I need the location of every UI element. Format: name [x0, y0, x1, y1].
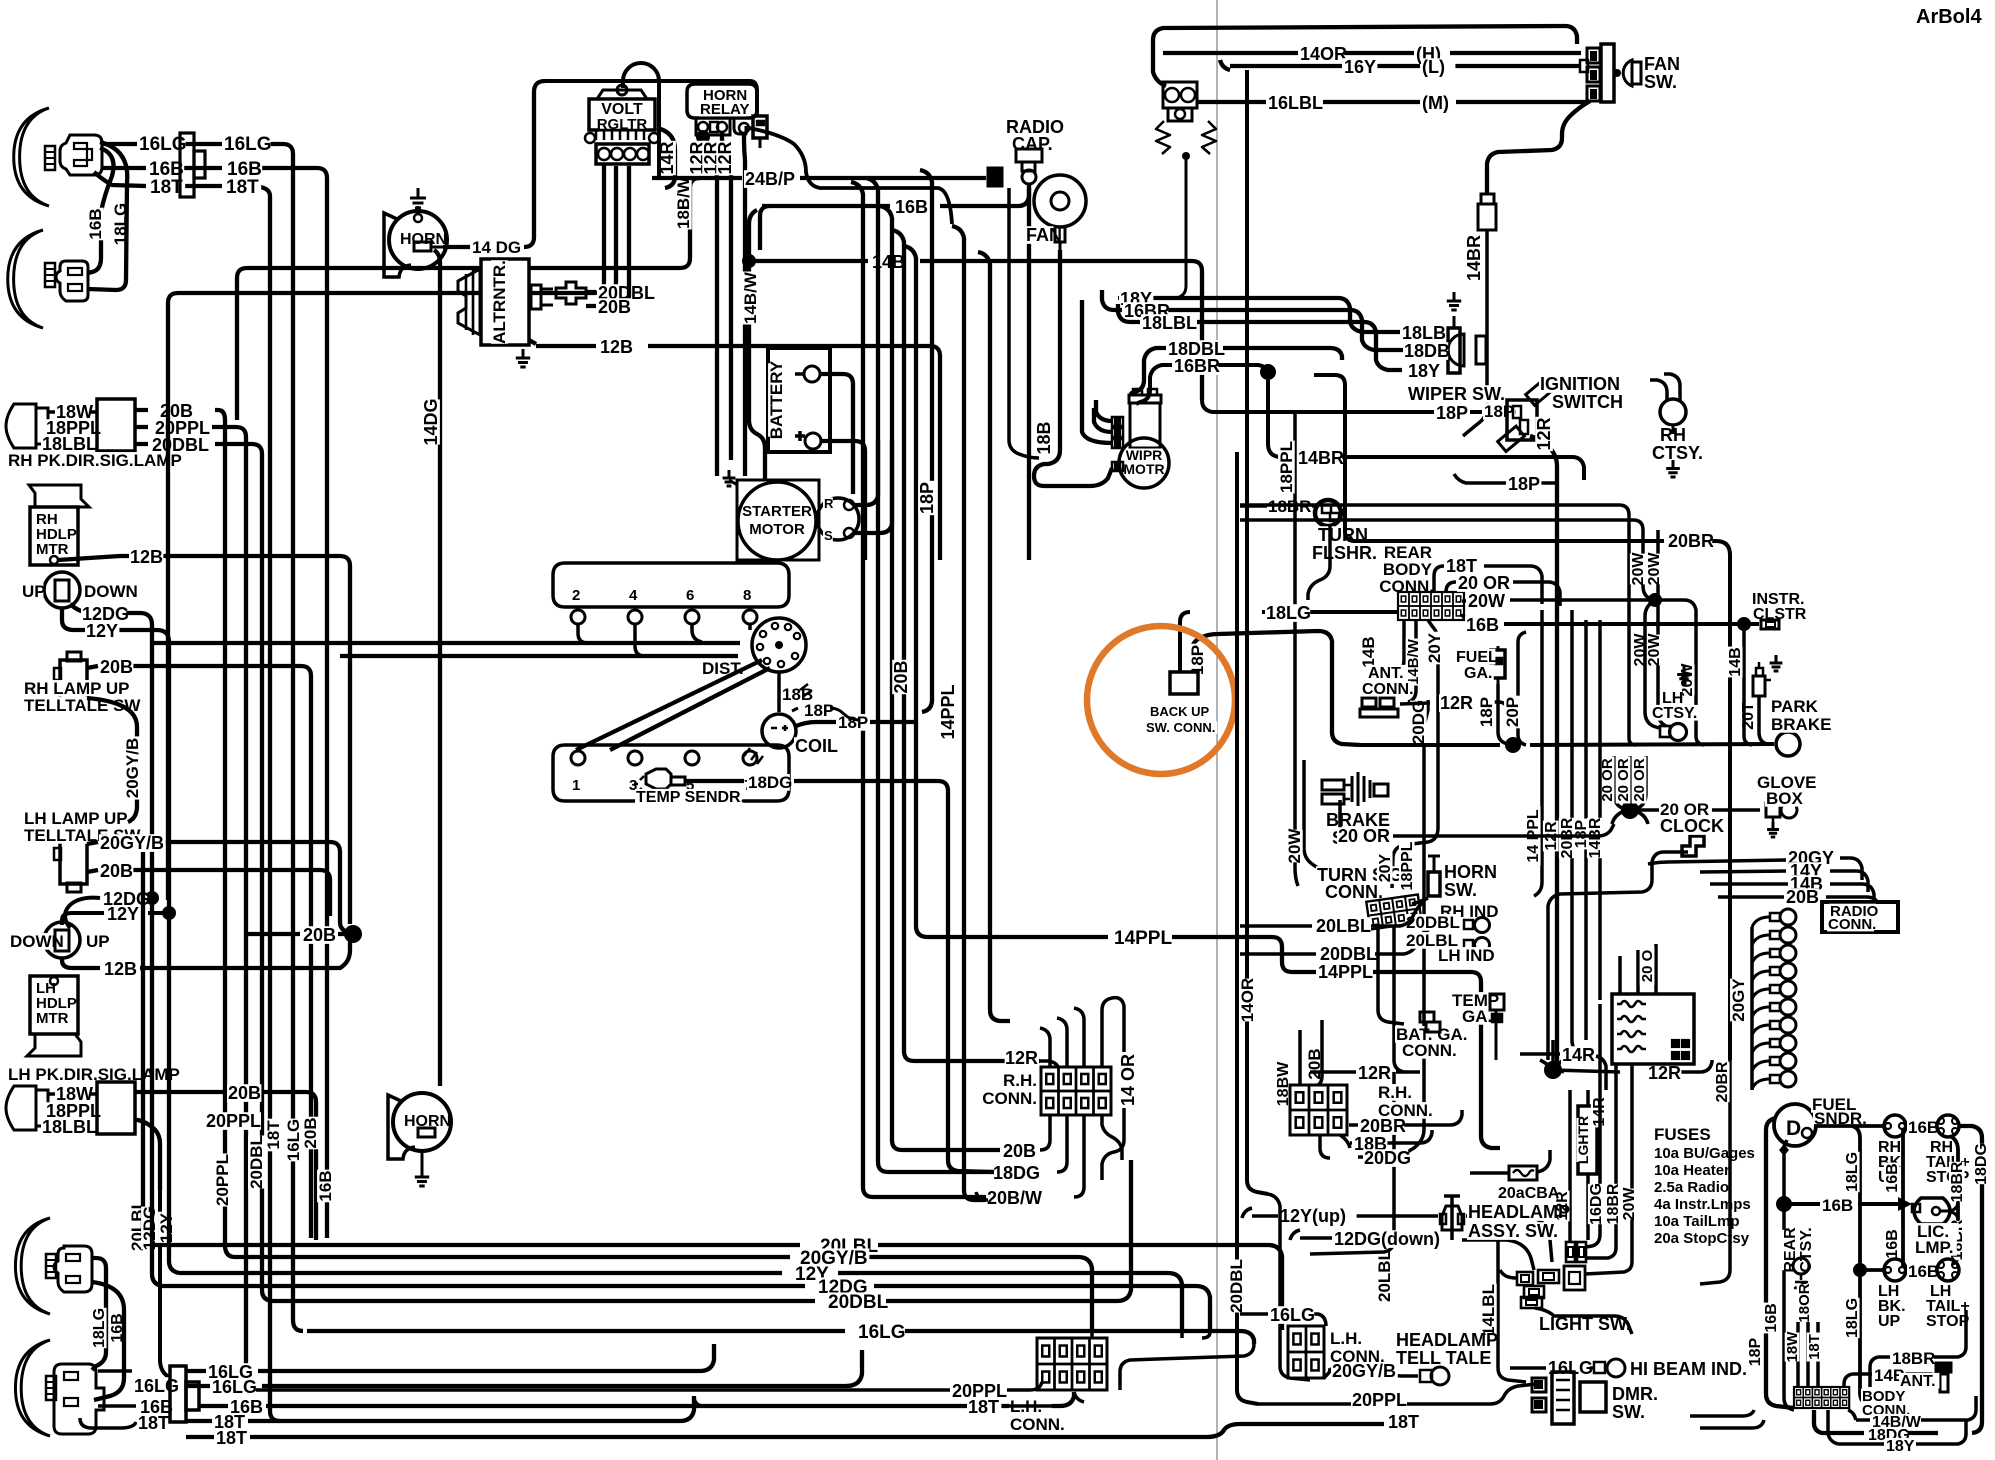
wire 18T lh	[694, 1392, 1084, 1406]
svg-text:20BR: 20BR	[1360, 1116, 1406, 1136]
wire 20B altrntr	[586, 166, 629, 306]
svg-text:18P: 18P	[1477, 697, 1496, 727]
vertical 18BR low	[1585, 1064, 1616, 1258]
svg-text:LMP.: LMP.	[1915, 1238, 1953, 1257]
label 20W v1	[1630, 552, 1647, 586]
label LH TAIL STOP	[1925, 1283, 1975, 1330]
label 14B v	[1727, 647, 1744, 678]
park brake connector	[1753, 655, 1782, 696]
label 18Y w	[1119, 289, 1153, 309]
label 16LG right	[223, 134, 272, 155]
wire relay to fan area	[749, 128, 952, 224]
svg-text:16B: 16B	[895, 197, 928, 217]
label 18P coil1	[803, 701, 836, 720]
label 18DBL w	[1167, 339, 1225, 359]
svg-text:24B/P: 24B/P	[745, 169, 795, 189]
vertical 12DG lower	[152, 898, 162, 1286]
label 20DBL big vert	[1227, 1259, 1246, 1313]
svg-text:20W: 20W	[1285, 828, 1304, 864]
wire 14B v	[1744, 628, 1752, 745]
wire 16B mid vert	[1901, 1128, 1905, 1268]
label TELLTALE SW 2	[23, 826, 141, 845]
label 18P tail	[1747, 1337, 1764, 1368]
horn relay side connector	[753, 116, 767, 148]
svg-text:20LBL: 20LBL	[1375, 1250, 1394, 1302]
label 12R rhc	[1357, 1063, 1391, 1083]
fuse panel squares	[1672, 1040, 1689, 1059]
label 18T body	[1806, 1333, 1823, 1362]
label 12Y top	[85, 621, 119, 641]
wire 20W line	[0, 0, 1, 1]
connector 14BR inline	[1478, 194, 1496, 230]
wire 18BR tail vert	[1950, 1136, 1958, 1264]
label 16LG bus	[857, 1322, 906, 1343]
svg-text:S: S	[824, 528, 833, 543]
label LH IND	[1437, 946, 1500, 965]
wire 16LG lhr	[1240, 1314, 1326, 1326]
wire 14R lbl	[1520, 1054, 1606, 1090]
wire 20DBL sig	[135, 444, 272, 1301]
svg-text:16Y: 16Y	[1344, 57, 1376, 77]
RH CTSY lamp	[1650, 374, 1686, 425]
vertical 20BR low	[1700, 1060, 1730, 1284]
label SWITCH	[1551, 392, 1623, 412]
wire lghtr	[1586, 1090, 1590, 1240]
instr clstr box	[1761, 620, 1779, 629]
wire 16LG b2	[186, 1350, 862, 1386]
vertical 20W low	[1585, 1064, 1632, 1274]
svg-text:10a TailLmp: 10a TailLmp	[1654, 1213, 1740, 1230]
wire 20PPL lh	[256, 1382, 1042, 1390]
label 16B tail mid	[1821, 1196, 1854, 1215]
LH TAIL STOP lamp	[1937, 1259, 1959, 1281]
svg-text:20B: 20B	[100, 861, 133, 881]
label 12B altrntr2	[599, 337, 633, 357]
svg-text:2: 2	[572, 587, 580, 604]
ant symbol	[1932, 1363, 1951, 1392]
bus wire 16LG	[307, 1331, 1254, 1344]
label 18W 2	[55, 1084, 93, 1104]
svg-text:ANT.: ANT.	[1368, 665, 1404, 682]
label 16LBL	[1267, 93, 1323, 113]
ind RH	[1464, 918, 1490, 933]
wire 18BR lower	[1870, 1310, 1966, 1387]
label 18T rbc	[1445, 556, 1479, 576]
svg-text:14R: 14R	[1562, 1045, 1595, 1065]
label 18B vert	[1034, 421, 1054, 455]
svg-text:20BR: 20BR	[1714, 1061, 1731, 1102]
svg-text:14BR: 14BR	[1587, 817, 1604, 858]
label RADIO CAP	[1005, 117, 1064, 154]
label WIPER SW.	[1407, 384, 1506, 404]
svg-text:16LG: 16LG	[224, 134, 272, 155]
LH BK UP lamp	[1853, 1259, 1906, 1281]
svg-text:SW.: SW.	[1444, 880, 1477, 900]
label DOWN	[83, 582, 138, 601]
RH HDLP MTR flag	[29, 485, 89, 507]
label 14BR r	[1587, 817, 1604, 858]
wire 12R rhconn	[1040, 1061, 1058, 1067]
wire lhconn loops	[1092, 1332, 1254, 1390]
wire 16LG from connector	[172, 144, 303, 1331]
wire 20T	[1759, 696, 1767, 744]
svg-text:16B: 16B	[1908, 1118, 1939, 1137]
svg-text:FUSES: FUSES	[1654, 1125, 1711, 1144]
label 18Y w2	[1407, 361, 1441, 381]
label 20W mid1	[1632, 633, 1649, 667]
svg-text:ALTRNTR.: ALTRNTR.	[490, 260, 509, 344]
label 16B lower vert	[109, 1313, 126, 1344]
backup switch connector	[1170, 672, 1198, 694]
wire 12R c	[744, 133, 745, 476]
wire 20W v2	[1240, 520, 1666, 726]
wire vreg knob hop	[623, 63, 659, 178]
wire 20DG vert	[1404, 700, 1428, 1154]
wire 12R rhc	[1310, 1070, 1404, 1074]
wire 20BR rhc	[1349, 1110, 1462, 1125]
label HEADLAMP ASSY SW	[1467, 1202, 1570, 1241]
wire vreg pin4 14R	[657, 128, 675, 188]
wire trunk v1	[851, 182, 986, 1197]
wire 20 OR brake	[1340, 800, 1614, 836]
svg-text:FLSHR.: FLSHR.	[1312, 543, 1377, 563]
svg-text:ArBol4: ArBol4	[1916, 6, 1982, 28]
fan switch connectors	[1580, 48, 1600, 101]
label LH LAMP UP	[23, 809, 128, 828]
wiper motor circle	[1119, 438, 1169, 488]
label 18LG rbc	[1265, 603, 1311, 623]
label 14B tail	[1873, 1366, 1906, 1385]
wire 18LBL wiper	[1118, 304, 1402, 370]
label GLOVE BOX	[1756, 773, 1817, 808]
svg-text:R.H.: R.H.	[1003, 1071, 1037, 1090]
label 18T r	[1387, 1412, 1421, 1432]
label 12DG vert	[140, 1206, 159, 1250]
fuse 20aCBA	[1470, 1150, 1550, 1180]
label REAR BODY CONN	[1379, 543, 1435, 596]
label 20B vert	[301, 1117, 320, 1150]
LH HDLP MTR box	[30, 976, 78, 1034]
svg-text:UP: UP	[1878, 1313, 1901, 1330]
svg-text:CONN.: CONN.	[1325, 882, 1383, 902]
distributor lower box	[553, 745, 789, 801]
wire 14DG vertical	[434, 250, 440, 1086]
label 18BR h	[1891, 1349, 1935, 1368]
wire battery pos	[821, 441, 865, 560]
label 16B rbc	[1465, 615, 1499, 635]
wire trunk v5	[904, 246, 1108, 937]
wire 18T from connector	[172, 186, 280, 1421]
wire lamp link 16B	[92, 1282, 124, 1400]
svg-text:18LBL: 18LBL	[42, 1117, 97, 1137]
label 20P fg	[1503, 696, 1522, 729]
label 18P fg	[1477, 696, 1496, 729]
label REAR CTSY	[1782, 1225, 1815, 1275]
label 18LB	[1401, 323, 1446, 343]
svg-text:20aCBA: 20aCBA	[1498, 1185, 1560, 1202]
label LH CONN center	[1009, 1397, 1065, 1434]
svg-text:DOWN: DOWN	[10, 932, 64, 951]
wire 18LG into rbc	[1180, 612, 1398, 672]
svg-text:20W: 20W	[1621, 1187, 1638, 1221]
svg-text:12R: 12R	[1648, 1063, 1681, 1083]
wire 20LBL vert	[1310, 1072, 1394, 1254]
svg-text:HEADLAMP: HEADLAMP	[1468, 1202, 1570, 1222]
label 16B vert	[86, 208, 105, 241]
svg-text:18B/W: 18B/W	[674, 176, 693, 229]
fan switch knob	[1613, 60, 1641, 86]
wire lamp link 18LG	[92, 1258, 106, 1370]
wire dist drop	[777, 672, 781, 712]
wire radio cap down	[1027, 184, 1031, 560]
wire rbc below 20Y	[1392, 620, 1438, 888]
svg-text:12B: 12B	[600, 337, 633, 357]
wire hl assy 12Y	[1242, 1208, 1552, 1262]
wire 16BR2 wiper	[1136, 364, 1276, 404]
svg-text:16LBL: 16LBL	[1268, 93, 1323, 113]
wire 12R b	[722, 133, 731, 460]
svg-text:BATTERY: BATTERY	[767, 360, 786, 439]
svg-text:18P: 18P	[917, 482, 937, 514]
svg-text:18B: 18B	[1034, 421, 1054, 454]
label TURN FLSHR	[1311, 525, 1378, 563]
svg-text:R.H.: R.H.	[1378, 1083, 1412, 1102]
label 20 OR brake	[1337, 826, 1393, 846]
label 18B/W vert	[674, 176, 693, 229]
wire 16Y L	[1220, 60, 1581, 70]
dist terminal 8	[742, 587, 757, 630]
spark marks coil	[744, 684, 812, 764]
label 14B rbc	[1359, 636, 1378, 669]
svg-text:20PPL: 20PPL	[213, 1154, 232, 1206]
turn flasher	[1315, 500, 1341, 526]
wire 20B sig	[135, 410, 235, 1257]
wire top feed horizontal	[545, 81, 757, 116]
svg-text:14PPL: 14PPL	[1318, 962, 1373, 982]
connector bar B	[194, 151, 205, 178]
wire 18OR vert	[1805, 1290, 1808, 1387]
vertical 18P r	[1584, 620, 1588, 1040]
svg-text:12R: 12R	[1440, 693, 1473, 713]
label 20BR r	[1559, 817, 1576, 858]
label 18PPL tsc	[1399, 841, 1416, 891]
connector RH sig lamp	[97, 399, 135, 451]
label 16LG br1	[207, 1362, 253, 1382]
label BODY CONN	[1861, 1388, 1910, 1419]
svg-text:18P: 18P	[804, 701, 834, 720]
label HI BEAM IND	[1629, 1359, 1761, 1379]
wire solenoid R	[853, 440, 878, 505]
label 14 PPL r	[1525, 806, 1542, 866]
svg-text:BOX: BOX	[1766, 789, 1804, 808]
label HORN bottom	[403, 1113, 451, 1130]
headlamp LH inner	[15, 1340, 56, 1436]
svg-text:20W: 20W	[1646, 552, 1663, 586]
wire 20PPL link2	[160, 1190, 170, 1378]
bat ga symbol	[1420, 1012, 1440, 1032]
temp sender symbol	[634, 769, 685, 792]
svg-text:HI BEAM IND.: HI BEAM IND.	[1630, 1359, 1747, 1379]
svg-text:20B: 20B	[598, 297, 631, 317]
svg-text:18LG: 18LG	[1844, 1298, 1861, 1338]
lamp column	[1752, 909, 1796, 1089]
sheet label ArBol4	[1915, 6, 1989, 28]
label 20B radio	[1785, 887, 1819, 907]
wire trunk v6 18P	[920, 170, 932, 712]
svg-text:18LG: 18LG	[1266, 603, 1311, 623]
label 18PPL 2	[45, 1101, 101, 1121]
label 18W	[55, 402, 93, 422]
label 14Y radio	[1789, 861, 1823, 881]
svg-text:18Y: 18Y	[1886, 1438, 1915, 1455]
svg-text:18P: 18P	[1436, 403, 1468, 423]
svg-text:18T: 18T	[216, 1428, 247, 1448]
wire 14B/W bottom	[1848, 1396, 1976, 1420]
label 14 DG	[471, 238, 524, 257]
label 16DG	[1588, 1183, 1605, 1225]
wire hl assy 12DG	[1290, 1230, 1534, 1270]
svg-text:16LG: 16LG	[212, 1377, 257, 1397]
wire 12R small	[1400, 702, 1508, 718]
label RH IND	[1439, 902, 1502, 921]
label 20PPL vert	[213, 1154, 232, 1207]
ground starter	[723, 470, 739, 486]
dist terminal 6	[685, 587, 702, 642]
wire 20B/W tail	[976, 1192, 988, 1200]
LH lamp-up telltale switch	[54, 832, 87, 892]
wire wiper pins in	[1082, 300, 1112, 443]
wire lsw feeds	[1237, 452, 1258, 1404]
label 12B bottom	[103, 959, 137, 979]
junction horn relay	[696, 130, 710, 144]
label 16B vert2	[316, 1170, 335, 1203]
label 20DG vert	[1409, 700, 1428, 744]
label FAN	[1025, 225, 1062, 245]
label FUEL SNDR	[1811, 1095, 1867, 1128]
wire 12DG top motor	[70, 604, 152, 898]
wire 20B junction line	[246, 925, 362, 943]
svg-text:20W: 20W	[1468, 591, 1505, 611]
svg-text:20 O: 20 O	[1639, 949, 1656, 982]
label 16B midv1	[1884, 1163, 1901, 1194]
label 16B rh	[1907, 1118, 1940, 1137]
svg-text:20 OR: 20 OR	[1458, 573, 1510, 593]
label 20 OR v2	[1615, 757, 1632, 804]
connector LH inner lamp	[54, 1364, 104, 1434]
bus wire 20DBL	[272, 1160, 1131, 1301]
svg-text:DMR.: DMR.	[1612, 1384, 1658, 1404]
label BAT GA CONN	[1395, 1025, 1479, 1060]
wire 18DG dist	[685, 781, 994, 1172]
label 16B bl	[139, 1397, 173, 1417]
svg-text:20Y: 20Y	[1425, 632, 1444, 663]
label 12B hdlp	[129, 547, 163, 567]
wire fanrad down	[1009, 188, 1039, 458]
svg-text:BRAKE: BRAKE	[1771, 715, 1831, 734]
label 20T	[1740, 701, 1757, 732]
wire 16B rh link	[1906, 1124, 1936, 1128]
wire 12Y top motor	[62, 608, 169, 911]
svg-text:12Y(up): 12Y(up)	[1280, 1206, 1346, 1226]
label RH PK.DIR.SIG.LAMP	[7, 451, 193, 470]
wire rbc 16B line	[1462, 614, 1759, 631]
label 18B coil	[781, 685, 814, 704]
wire 20GY radio	[1648, 858, 1862, 880]
svg-text:16LG: 16LG	[1270, 1305, 1315, 1325]
label 14B/W bot	[1871, 1414, 1922, 1431]
connector LH conn center	[1037, 1338, 1107, 1390]
svg-text:(L): (L)	[1422, 57, 1445, 77]
label 18LBL	[41, 434, 97, 454]
label 18DG rh	[993, 1163, 1041, 1183]
wire long park brake	[1360, 737, 1774, 753]
ant conn	[1360, 698, 1398, 717]
label 12R j	[1647, 1063, 1681, 1083]
label 20BR low	[1714, 1061, 1731, 1102]
dist terminal 3	[628, 751, 642, 794]
RH HDLP MTR box	[30, 507, 78, 565]
label 14LBL	[1479, 1284, 1498, 1337]
wiper switch	[1434, 326, 1486, 373]
label 12R v2	[701, 141, 721, 175]
label LH CONN r	[1329, 1329, 1385, 1366]
svg-text:STOP: STOP	[1926, 1313, 1970, 1330]
label 12DG top	[81, 604, 129, 624]
horn bottom terminal	[418, 1128, 435, 1137]
wire lamp column spine	[1750, 927, 1754, 1090]
svg-text:20PPL: 20PPL	[1352, 1390, 1407, 1410]
wire 18PPL vert	[1295, 412, 1298, 886]
svg-text:UP: UP	[86, 932, 110, 951]
svg-text:14OR: 14OR	[1238, 978, 1257, 1022]
svg-text:14OR: 14OR	[1300, 44, 1347, 64]
svg-text:12DG(down): 12DG(down)	[1334, 1229, 1440, 1249]
label 14PPL trunk	[938, 684, 958, 740]
svg-text:16B: 16B	[86, 208, 105, 239]
telltale lamp2	[1380, 1367, 1449, 1385]
label LH CTSY	[1651, 690, 1701, 722]
connector square 24BP	[988, 168, 1002, 186]
label 16B left	[148, 159, 184, 180]
wiper motor pins	[1112, 417, 1123, 471]
label 20DBL vert	[247, 1135, 266, 1189]
wire 18DG bottom label	[1867, 1427, 1910, 1444]
dist terminal 1	[571, 751, 585, 794]
svg-text:18DB: 18DB	[1404, 341, 1450, 361]
svg-text:CLOCK: CLOCK	[1660, 816, 1724, 836]
clock symbol	[1682, 836, 1704, 856]
wire rbc below 14BW	[1408, 620, 1416, 702]
svg-text:20BR: 20BR	[1668, 531, 1714, 551]
svg-text:GA.: GA.	[1462, 1007, 1492, 1026]
coil	[762, 714, 796, 748]
RH lamp-up telltale switch	[54, 652, 87, 712]
svg-text:CAP.: CAP.	[1012, 134, 1053, 154]
svg-text:18T: 18T	[264, 1120, 283, 1150]
label 20B v	[1305, 1048, 1324, 1081]
volt regulator body	[589, 99, 655, 133]
wire 20W bs	[1304, 760, 1364, 884]
label RH TAIL STOP	[1925, 1139, 1975, 1186]
svg-text:20DBL: 20DBL	[828, 1292, 889, 1313]
label RH CONN right	[1377, 1083, 1433, 1120]
vertical 20BR r	[1572, 610, 1580, 1054]
glove box symbol	[1766, 802, 1797, 837]
svg-text:18DG: 18DG	[993, 1163, 1040, 1183]
alternator pulley	[458, 269, 480, 335]
body conn grid	[1794, 1387, 1849, 1408]
RH BK UP lamp	[1884, 1115, 1906, 1137]
